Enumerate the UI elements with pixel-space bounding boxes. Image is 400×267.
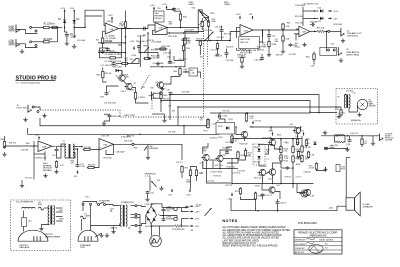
wire r148 bott	[255, 199, 257, 211]
jack J5 contact tip	[32, 106, 34, 108]
transistor Q16 driver	[258, 169, 266, 175]
wire + rail	[162, 207, 189, 209]
junction C103	[218, 114, 220, 116]
transistor Q10	[240, 131, 248, 137]
svg-text:C55: C55	[52, 155, 56, 157]
wire -40 link	[182, 225, 189, 227]
diode D5	[116, 69, 119, 72]
svg-text:R45 C43 .022: R45 C43 .022	[240, 53, 252, 55]
resistor R153	[280, 145, 282, 153]
supply -15V arrow right	[328, 17, 338, 20]
jack J4 contact a	[328, 49, 330, 51]
svg-text:R59 10K: R59 10K	[223, 111, 231, 113]
FET Q3 mute switch	[149, 92, 157, 101]
supply +40V output arrow	[190, 205, 201, 208]
component C49 box	[336, 165, 340, 172]
capacitor C55	[55, 148, 59, 152]
wire jack J1 tip to R1	[32, 26, 43, 28]
svg-text:C29 22M: C29 22M	[226, 60, 234, 62]
svg-text:+15V: +15V	[107, 15, 113, 17]
wire out col 293	[292, 162, 294, 184]
wire U2B inv fb	[296, 34, 299, 41]
resistor R175 bottom	[239, 187, 241, 195]
svg-text:U2A: U2A	[244, 29, 249, 32]
wire pa left col2	[202, 161, 204, 169]
plug standard 120V	[78, 230, 98, 241]
svg-text:R1?8 10: R1?8 10	[285, 177, 292, 179]
ground FET source	[162, 118, 166, 122]
svg-text:Q15: Q15	[268, 179, 272, 181]
wire dome gnd link	[95, 233, 102, 237]
svg-text:C107 47p: C107 47p	[233, 173, 241, 175]
wire fet drain	[153, 92, 161, 93]
wire u2b input2	[294, 33, 299, 35]
wire q11 up	[297, 126, 299, 128]
junction diode rail 2	[314, 18, 316, 20]
svg-text:ALL POTS ARE LINEAR (LINEAR TA: ALL POTS ARE LINEAR (LINEAR TAPER) UNLES…	[223, 226, 286, 229]
junction mid bus 3	[217, 40, 219, 42]
export switch coil	[22, 207, 36, 208]
wire T3 sec to C57	[73, 149, 78, 164]
junction bus C start	[177, 106, 179, 108]
wire diff emitters	[209, 159, 217, 161]
capacitor C34	[311, 23, 315, 27]
fuse F3 export	[39, 207, 44, 210]
wire pins to switch	[83, 202, 97, 204]
junction out bus b	[292, 183, 294, 185]
supply +15V arrow at D1	[60, 8, 66, 13]
wire diff in	[203, 143, 208, 154]
resistor R29	[201, 20, 203, 28]
supply +40V arrow pa 2	[299, 131, 305, 136]
svg-text:+15V: +15V	[333, 11, 339, 13]
wire output devices column	[280, 161, 282, 168]
wire r74 bott	[196, 176, 198, 181]
ground in export box	[39, 227, 43, 231]
connector pin sec 4	[135, 225, 137, 227]
ground at footswitch sleeve	[23, 118, 27, 122]
wire C38 stub	[104, 113, 110, 115]
wire R18 link	[155, 48, 168, 50]
junction x125 c	[125, 52, 127, 54]
ground below R62	[2, 152, 6, 156]
wire gnd link	[368, 136, 373, 141]
wire R49 bottom	[282, 29, 284, 30]
svg-text:C1?2: C1?2	[212, 124, 216, 126]
pot P5 reverb element	[147, 144, 149, 152]
wire c38 ground link	[104, 118, 110, 121]
wire bus A left drop	[169, 95, 171, 121]
svg-text:K1: K1	[217, 121, 219, 123]
wire line1 to line2 drop	[183, 126, 185, 135]
wire R44 to gnd	[247, 50, 250, 53]
wire R70 to U3B	[91, 147, 99, 150]
svg-text:+40V: +40V	[268, 131, 274, 133]
svg-text:R?3 HML1SW: R?3 HML1SW	[173, 229, 185, 231]
svg-text:R60 470: R60 470	[163, 99, 170, 101]
wire bottom eq link	[127, 59, 139, 64]
wire R39 gnd	[160, 98, 162, 103]
svg-text:R31 10K: R31 10K	[224, 34, 232, 36]
wire fb junction	[118, 44, 122, 46]
svg-text:C42 10M: C42 10M	[255, 60, 263, 62]
wire R11 link	[116, 63, 122, 65]
wire q11 down	[297, 134, 299, 139]
svg-text:Q1?: Q1?	[258, 175, 261, 177]
capacitor C100 filter	[162, 207, 169, 212]
wire C5 bottom to ground	[66, 37, 68, 41]
wire Q1 collector up	[121, 71, 123, 75]
resistor R6	[124, 21, 126, 29]
wire q18 base	[262, 184, 267, 191]
svg-text:-16V: -16V	[194, 219, 199, 221]
wire c66 col	[277, 199, 279, 201]
wire node A to U1A bus	[74, 10, 104, 27]
ground plug area 2	[105, 233, 109, 237]
svg-text:R63: R63	[26, 143, 30, 145]
resistor R150	[231, 135, 233, 144]
svg-text:R34 1M: R34 1M	[105, 73, 112, 75]
capacitor C36	[105, 90, 112, 95]
ground row2	[345, 147, 349, 151]
wire C55 top	[56, 146, 58, 148]
resistor R71	[181, 165, 183, 173]
title block row line 1	[294, 237, 342, 239]
svg-text:R37: R37	[142, 87, 145, 89]
wire presence gnd link	[147, 194, 149, 197]
wire R53 to gnd	[282, 41, 284, 49]
capacitor C7 coupling	[143, 27, 147, 31]
junction J3 drop	[326, 31, 328, 33]
svg-text:R172 220: R172 220	[254, 178, 262, 180]
resistor R75	[340, 109, 342, 116]
op-amp U2B	[299, 26, 310, 37]
svg-text:C30 .1: C30 .1	[121, 91, 127, 93]
wire 232 col long	[231, 158, 233, 184]
wire lamp lead 1	[150, 226, 152, 236]
svg-text:C11? 47p: C11? 47p	[207, 181, 214, 183]
svg-text:T.B. e: T.B. e	[85, 197, 90, 199]
wire pa to output row	[321, 135, 379, 137]
wire feedback loop	[100, 48, 111, 58]
wire q15 col	[273, 163, 282, 169]
wire U2A output	[253, 29, 299, 31]
svg-text:R171 22K: R171 22K	[226, 142, 235, 144]
capacitor C24	[182, 38, 186, 42]
svg-text:R1?5 1K: R1?5 1K	[255, 121, 262, 123]
wire q14 emitter	[275, 145, 282, 149]
transistor Q11	[293, 127, 301, 133]
junction T3 out	[81, 146, 83, 148]
wire T1 tap 2	[56, 211, 63, 213]
wire sec top to bridge	[137, 205, 146, 208]
junction output row 2	[347, 135, 349, 137]
wire caps mid 2	[163, 216, 165, 218]
transformer T2 main	[120, 205, 127, 227]
ground below C62	[145, 197, 149, 201]
svg-text:P/N 80301303: P/N 80301303	[298, 221, 317, 225]
junction pa bottom	[257, 210, 259, 212]
svg-text:-15V: -15V	[168, 195, 173, 197]
svg-text:+40V: +40V	[299, 131, 305, 133]
junction EQ mid	[147, 32, 149, 34]
resistor R147L	[307, 151, 309, 159]
svg-text:C26 .022: C26 .022	[215, 27, 223, 29]
wire Q1 to Q2	[124, 81, 127, 84]
junction u3a in	[33, 145, 35, 147]
ground below U2B	[302, 43, 306, 47]
wire fet source	[153, 97, 161, 99]
wire C5 top	[65, 32, 67, 33]
ground at footswitch 2	[42, 114, 46, 118]
wire bias col	[258, 145, 260, 148]
svg-text:Q4: Q4	[155, 82, 158, 84]
junction driver chain	[272, 183, 274, 185]
resistor R64	[55, 160, 57, 168]
svg-text:D5 D6: D5 D6	[254, 162, 259, 164]
svg-text:R66 47K: R66 47K	[88, 164, 96, 166]
wire R71 down	[181, 173, 183, 178]
supply -15V below U1A	[133, 46, 135, 50]
wire speaker column top	[346, 157, 350, 159]
wire T3 in top	[57, 145, 66, 147]
junction lamp lead	[151, 225, 153, 227]
ground reverb box left	[337, 115, 341, 119]
supply +15V arrow at U2A	[235, 14, 241, 19]
svg-text:C?: C?	[267, 159, 269, 161]
jack J3 PRE AMP OUT	[341, 28, 344, 37]
svg-text:←16Ω: ←16Ω	[327, 208, 333, 210]
wire long line 1	[40, 118, 207, 126]
svg-text:A.C.: A.C.	[29, 220, 33, 223]
wire Q4 to R43	[164, 75, 180, 84]
svg-text:C32 10M R57 470: C32 10M R57 470	[303, 4, 318, 6]
title block signature oval	[309, 244, 323, 253]
svg-text:T1 MAIN(120V): T1 MAIN(120V)	[121, 201, 135, 204]
capacitor C38	[108, 114, 112, 118]
wire EQ mid column	[148, 33, 150, 59]
wire r142 col	[245, 148, 247, 151]
junction C45 top	[268, 29, 270, 31]
op-amp U3B reverb recovery	[99, 139, 114, 151]
wire R140 top to line1	[207, 118, 209, 125]
wire out bus drop	[292, 184, 294, 189]
svg-text:C6 47pF: C6 47pF	[77, 40, 86, 42]
pot P2 element line	[198, 10, 209, 17]
wire bus E reverb return	[310, 112, 337, 114]
svg-text:Q12: Q12	[200, 163, 203, 165]
wire bus C	[178, 107, 341, 110]
wire c66 bott	[277, 204, 279, 210]
wire pa vertical 293	[292, 138, 294, 147]
svg-text:CD # 80401930(A/81280): CD # 80401930(A/81280)	[16, 81, 41, 84]
wire opto link	[183, 71, 189, 73]
fuse F1	[81, 216, 86, 219]
svg-text:-15V: -15V	[248, 14, 253, 16]
wire U1A inverting input	[103, 31, 106, 37]
junction diode rail 1	[314, 10, 316, 12]
wire C21 top rail	[167, 8, 175, 10]
wire C24 down	[183, 42, 185, 46]
resistor R141L	[305, 139, 307, 147]
transistor Q15 driver	[268, 169, 276, 175]
capacitor C5	[65, 33, 69, 37]
resistor R11	[121, 62, 129, 64]
ground c38	[102, 121, 106, 125]
svg-text:+15V: +15V	[162, 4, 168, 6]
svg-text:C59 4.7M: C59 4.7M	[101, 136, 110, 138]
transistor Q13 diff pair	[215, 155, 223, 161]
wire eq bottom row	[150, 66, 185, 68]
diode D output col	[313, 142, 316, 145]
resistor R62	[3, 140, 5, 148]
wire c34 link	[310, 24, 311, 26]
wire diff out	[223, 158, 238, 160]
svg-text:DRWN BY: DRWN BY	[295, 240, 306, 242]
wire q10 base	[236, 127, 240, 135]
supply -15V presence 1	[168, 189, 173, 197]
capacitor C102 filter	[162, 216, 169, 221]
wire q17 base	[297, 184, 303, 193]
bridge rectifier D100-D103	[146, 206, 157, 224]
wire eq col185 low	[184, 44, 186, 67]
wire plug hot up	[82, 205, 84, 211]
junction x125 a	[125, 36, 127, 38]
junction pa mid	[219, 168, 221, 170]
svg-text:+15V: +15V	[34, 135, 40, 137]
svg-text:.22MF: .22MF	[70, 36, 77, 38]
resistor R39	[160, 91, 162, 100]
wire T2 sec ct2	[131, 216, 136, 218]
resistor R14	[182, 45, 184, 52]
resistor R148	[254, 192, 256, 200]
resistor R1	[42, 26, 50, 28]
junction row y53	[118, 52, 120, 54]
junction q11	[297, 138, 299, 140]
wire c42 stub	[261, 54, 263, 57]
capacitor C45	[267, 34, 271, 38]
diode D1	[63, 20, 66, 23]
junction eq bottom a	[161, 66, 163, 68]
svg-text:C3 10MF R7 68K: C3 10MF R7 68K	[105, 54, 122, 56]
wire U1A out to C7	[122, 28, 142, 30]
wire R29 down	[201, 27, 203, 30]
resistor R147	[245, 112, 247, 122]
junction out bus a	[280, 183, 282, 185]
svg-text:R149 1K: R149 1K	[223, 148, 231, 150]
resistor R33	[102, 70, 104, 79]
resistor R140	[207, 118, 210, 128]
transistor Q17 output	[303, 189, 311, 195]
wire r142 bott	[238, 156, 246, 160]
svg-text:D10: D10	[306, 143, 309, 145]
transformer T3 reverb driver	[65, 144, 74, 158]
jack J2 low gain input	[16, 39, 19, 47]
junction on input bus	[84, 27, 86, 29]
svg-text:R1?6 470: R1?6 470	[214, 176, 222, 178]
junction pot top	[197, 27, 199, 29]
resistor R73	[189, 169, 191, 177]
svg-text:U3A: U3A	[42, 146, 47, 149]
svg-text:C104 47p: C104 47p	[210, 138, 218, 140]
wire T2 sec bottom	[131, 225, 136, 227]
svg-text:APPD BY: APPD BY	[295, 251, 305, 254]
wire U3B out	[114, 143, 132, 145]
wire pot to r30	[204, 18, 209, 22]
capacitor C output	[348, 139, 352, 143]
wire pa bottom drop	[230, 199, 232, 211]
wire ct down 2	[137, 216, 140, 218]
wire C45 top	[268, 30, 270, 34]
electrolytic circle 1	[174, 207, 177, 210]
wire C6 branch	[73, 27, 75, 38]
svg-text:C54 10M: C54 10M	[21, 150, 29, 152]
wire -16 col	[181, 219, 183, 227]
main switch contact 1	[98, 204, 100, 206]
title block signature 1	[306, 238, 315, 240]
wire pa in from line1	[206, 126, 208, 127]
wire T1 btm to gnd	[42, 225, 50, 227]
wire bridge - out	[151, 224, 162, 226]
wire -16 tap	[182, 218, 189, 220]
junction U2A out 2	[282, 29, 284, 31]
wire R33 to D5	[103, 79, 107, 82]
svg-text:R1671.2W: R1671.2W	[284, 156, 288, 160]
svg-text:4.7M Ω: 4.7M Ω	[138, 97, 145, 99]
wire bridge + out	[151, 204, 162, 208]
transistor Q output bottom	[299, 190, 308, 197]
resistor R70	[83, 148, 91, 150]
output inductor L1	[335, 135, 345, 136]
svg-text:+15V: +15V	[235, 14, 241, 16]
wire cap col	[349, 136, 351, 139]
svg-text:R61 47K: R61 47K	[9, 143, 17, 145]
svg-text:-15V: -15V	[70, 8, 75, 10]
reverb transducer circle	[357, 99, 367, 109]
resistor R52	[313, 53, 315, 61]
electrolytic circle 2	[174, 217, 177, 220]
pot P1 taper triangle	[198, 10, 209, 25]
diode D11	[320, 17, 323, 20]
wire node to C5 and gnd	[64, 27, 66, 32]
ground at bus left	[160, 87, 164, 91]
capacitor C108	[225, 151, 229, 155]
wire pot top to R29	[198, 10, 202, 16]
wire pa 232 col	[231, 139, 233, 143]
chassis ground pa top	[323, 131, 327, 135]
resistor R100 regulator	[175, 225, 183, 228]
title block row line 2	[294, 241, 342, 243]
junction pa row e	[300, 126, 302, 128]
junction mid bus 4	[229, 40, 231, 42]
svg-text:8: 8	[109, 21, 110, 23]
wire pa row drop	[300, 127, 302, 131]
svg-text:C39: C39	[168, 106, 171, 108]
supply -16V output arrow	[190, 218, 200, 221]
svg-text:C64 50p: C64 50p	[304, 172, 311, 174]
wire jack2 ring stub	[16, 44, 38, 48]
ground output network	[371, 141, 375, 145]
svg-text:HIGH: HIGH	[143, 46, 149, 48]
svg-text:R25: R25	[143, 35, 146, 37]
svg-text:C?04 D101: C?04 D101	[145, 204, 155, 206]
wire switch to T2	[106, 205, 120, 206]
junction pa rail b	[280, 138, 282, 140]
svg-text:8-8: 8-8	[325, 244, 327, 246]
wire u3a fb	[34, 153, 45, 155]
junction bus A start	[169, 94, 171, 96]
svg-text:U2B: U2B	[302, 32, 307, 34]
